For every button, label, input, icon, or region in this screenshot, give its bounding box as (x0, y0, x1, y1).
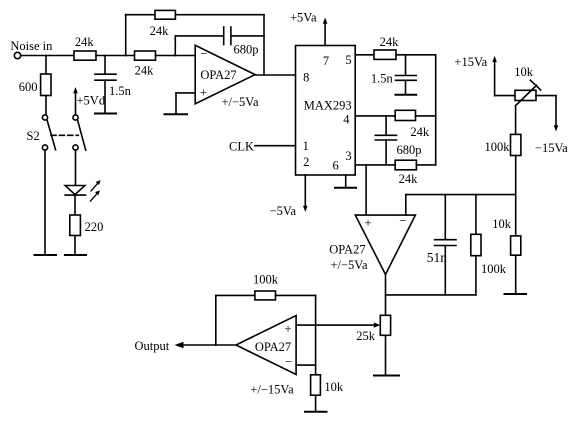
wire CLK input (255, 145, 296, 147)
wire 10k to ground (315, 395, 317, 411)
svg-text:1.5n: 1.5n (371, 72, 394, 86)
ground under 10k right (505, 293, 527, 295)
wire after R1 (96, 55, 135, 57)
wire main input line (21, 55, 74, 57)
wire 25k wiper arrow (296, 322, 380, 327)
wire switch B to LED (75, 150, 77, 185)
svg-text:−: − (399, 213, 406, 228)
wire -5Va supply (304, 175, 306, 207)
wire right bus (435, 55, 437, 165)
svg-text:2: 2 (303, 155, 309, 169)
svg-text:OPA27: OPA27 (255, 340, 291, 354)
wire 100k to rail (515, 156, 517, 195)
op-amp U1 OPA27 (195, 45, 255, 104)
ground under opamp1 plus (165, 113, 188, 115)
wire switch link dashed (51, 134, 78, 136)
resistor R 100k feedback (255, 291, 276, 300)
svg-text:5: 5 (345, 53, 351, 67)
wire 25k to ground (385, 335, 387, 374)
ground under switch A (35, 254, 57, 256)
wire pin3 to bus (416, 164, 435, 166)
svg-text:+5Va: +5Va (290, 11, 317, 25)
svg-text:6: 6 (332, 159, 338, 173)
switch S2 pole B (73, 115, 86, 150)
potentiometer R 25k (380, 315, 390, 335)
svg-text:24k: 24k (410, 125, 430, 139)
op-amp U2 MAX293 box (296, 46, 356, 176)
svg-text:100k: 100k (253, 273, 279, 287)
svg-text:+: + (364, 215, 371, 230)
LED emission arrows (90, 180, 100, 201)
svg-text:24k: 24k (150, 24, 170, 38)
resistor R 600 (41, 74, 51, 96)
svg-text:24k: 24k (135, 64, 155, 78)
svg-text:7: 7 (323, 54, 329, 68)
svg-text:25k: 25k (356, 329, 376, 343)
wire 600 drop (45, 56, 47, 75)
svg-text:+: + (284, 321, 291, 336)
wire 680p left (175, 35, 223, 37)
wire pin5 out (355, 54, 374, 56)
resistor R 24k series second (135, 51, 156, 60)
svg-text:MAX293: MAX293 (304, 99, 352, 113)
svg-text:10k: 10k (514, 65, 534, 79)
svg-text:24k: 24k (75, 35, 95, 49)
capacitor C 1.5n pin5 (396, 55, 417, 94)
svg-text:600: 600 (19, 80, 38, 94)
svg-text:+/−15Va: +/−15Va (250, 383, 294, 397)
svg-text:−: − (200, 46, 207, 61)
wire to opamp minus (156, 55, 196, 57)
resistor R 24k pin4 (395, 110, 415, 120)
ground under 25k (374, 375, 399, 377)
wire top feedback right (175, 14, 264, 16)
wire -15Va arrow (536, 96, 558, 132)
node Noise in terminal (14, 52, 20, 58)
wire opamp2 minus up (405, 195, 407, 216)
wire feedback right vertical (315, 295, 317, 365)
ground pin6 (335, 187, 356, 189)
resistor R 220 (70, 215, 81, 236)
svg-text:220: 220 (85, 220, 104, 234)
svg-text:+/−5Va: +/−5Va (330, 258, 367, 272)
potentiometer R 10k trimmer (515, 80, 541, 106)
wire opamp1 plus to ground (175, 93, 177, 114)
capacitor C 51n (435, 195, 456, 295)
wire LED to 220 (74, 195, 76, 215)
wire pin4 to bus (416, 115, 436, 117)
ground under 10k opamp3 (305, 411, 327, 413)
diode D1 LED (65, 186, 85, 196)
wire 600 to switch (45, 96, 47, 115)
svg-text:1.5n: 1.5n (109, 84, 132, 98)
wire 220 to ground (74, 236, 76, 255)
op-amp U4 OPA27 output (236, 316, 296, 375)
wire +5Va arrowhead (323, 18, 328, 24)
wire 680p right (231, 35, 264, 37)
wire feedback right vertical (263, 15, 265, 75)
resistor R 100k shunt (471, 195, 481, 295)
svg-text:Output: Output (135, 339, 170, 353)
wire opamp3 feedback top (216, 294, 255, 296)
svg-text:100k: 100k (481, 262, 507, 276)
wire pin5 to bus (396, 54, 436, 56)
wire +15Va arrow (492, 56, 515, 96)
capacitor C 1.5n input (95, 56, 116, 113)
resistor R 24k pin5 (374, 50, 396, 59)
resistor R 100k pot leg (511, 134, 521, 155)
wire pin6 ground drop (345, 175, 347, 187)
svg-text:10k: 10k (324, 380, 344, 394)
op-amp U3 OPA27 down (355, 215, 415, 274)
wire +5Vd arrow (73, 87, 78, 115)
svg-text:+5Vd: +5Vd (77, 94, 106, 108)
ground under 220 (65, 254, 86, 256)
svg-text:OPA27: OPA27 (200, 68, 236, 82)
svg-text:1: 1 (303, 139, 309, 153)
resistor R 24k feedback (155, 10, 175, 19)
svg-text:4: 4 (343, 113, 350, 127)
wire bottom rail (386, 294, 476, 296)
wire pin4 out (355, 115, 395, 117)
resistor R 10k opamp3 (311, 375, 321, 395)
wire pin3 out (355, 164, 395, 166)
svg-text:24k: 24k (380, 35, 400, 49)
svg-text:680p: 680p (397, 143, 422, 157)
capacitor C 680p pin4 (375, 116, 396, 165)
wire opamp3 minus (296, 364, 316, 366)
wire opamp2 plus drop (365, 165, 367, 215)
svg-text:+15Va: +15Va (454, 55, 487, 69)
switch S2 pole A (42, 115, 55, 254)
wire opamp1 plus input (176, 92, 195, 94)
svg-text:−5Va: −5Va (270, 204, 297, 218)
svg-text:100k: 100k (485, 140, 511, 154)
wire opamp1 output (255, 74, 295, 76)
svg-text:−: − (285, 354, 292, 369)
svg-text:24k: 24k (399, 172, 419, 186)
wire feedback left vertical (215, 295, 217, 345)
svg-text:8: 8 (303, 71, 309, 85)
svg-text:10k: 10k (492, 217, 512, 231)
wire +5Va supply (324, 22, 326, 46)
svg-text:Noise in: Noise in (10, 39, 53, 53)
wire feedback left vertical (125, 15, 127, 56)
capacitor C 680p feedback (224, 27, 231, 45)
resistor R 24k input (74, 51, 96, 60)
svg-text:OPA27: OPA27 (329, 243, 365, 257)
wire -5Va arrowhead (303, 206, 308, 212)
svg-text:+/−5Va: +/−5Va (221, 95, 258, 109)
svg-text:S2: S2 (27, 129, 40, 143)
wire 10k drop (315, 365, 317, 375)
resistor R 24k pin3 (395, 160, 416, 170)
wire 680p branch vertical (174, 36, 176, 56)
svg-text:51n: 51n (427, 250, 448, 265)
ground under 1.5n (95, 113, 116, 115)
ground under 1.5n pin5 (396, 94, 417, 96)
svg-text:680p: 680p (234, 43, 259, 57)
svg-text:3: 3 (345, 149, 351, 163)
wire output arrow (175, 342, 237, 349)
wire feedback right (276, 294, 316, 296)
svg-text:−15Va: −15Va (535, 141, 568, 155)
wire minus rail (406, 194, 516, 196)
svg-text:+: + (200, 85, 207, 100)
wire top feedback left (126, 14, 155, 16)
wire pot to 100k (515, 106, 517, 135)
svg-text:CLK: CLK (229, 139, 254, 153)
wire opamp2 output down (385, 275, 387, 316)
resistor R 10k to ground right (511, 195, 521, 294)
